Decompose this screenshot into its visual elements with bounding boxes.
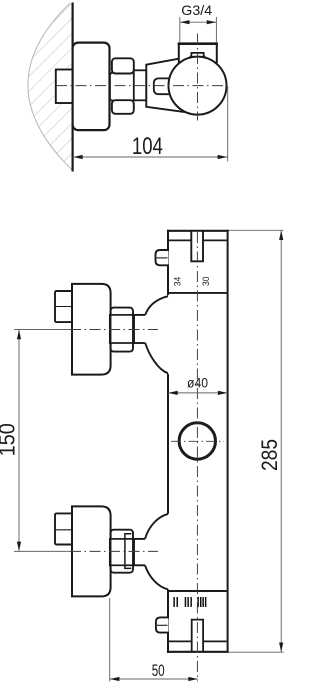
outlet tick marks — [173, 597, 206, 607]
lower knob neck — [133, 539, 146, 565]
ø40 arrow left — [168, 391, 178, 395]
bottom block band line — [169, 640, 227, 642]
104 extension line right — [227, 86, 229, 162]
150 arrow top — [17, 330, 21, 340]
104 dimension line — [73, 156, 228, 158]
ø40 dimension line — [168, 392, 228, 394]
ø40 arrow right — [218, 391, 228, 395]
G3/4 extension line right — [215, 17, 217, 43]
upper knob axis centerline — [14, 329, 158, 331]
stem cylinder — [134, 70, 147, 100]
ring horizontal centerline — [171, 440, 224, 442]
lower arm fill — [145, 515, 170, 590]
wall face line — [71, 3, 73, 172]
cone body — [146, 59, 197, 113]
svg-text:ø40: ø40 — [187, 375, 208, 391]
svg-text:34: 34 — [173, 277, 184, 287]
lower knob axis centerline — [14, 550, 158, 552]
vertical centerline (front view) — [196, 232, 198, 682]
horizontal centerline (top view) — [56, 85, 227, 87]
285 top extension line — [229, 229, 284, 231]
285 arrow top — [279, 231, 283, 241]
body left edge lower segment — [167, 589, 169, 653]
lower knob retaining clip — [125, 534, 131, 569]
lower knob body — [72, 506, 111, 596]
50 extension line left — [109, 598, 111, 682]
body bottom edge — [167, 651, 229, 653]
104 arrow left — [73, 155, 83, 159]
connector top thick edge — [178, 42, 218, 45]
lower knob hex outline — [111, 530, 134, 573]
lower arm top curve — [145, 514, 168, 539]
vertical centerline (top view) — [197, 34, 199, 121]
bottom outlet tube — [192, 620, 203, 651]
285 arrow bottom — [279, 643, 283, 653]
connector block (G3/4) — [179, 44, 217, 64]
svg-text:G3/4: G3/4 — [181, 2, 212, 18]
svg-text:30: 30 — [201, 277, 212, 287]
upper knob hex middle band — [110, 315, 134, 343]
bottom block top edge — [169, 590, 227, 592]
main round body (circle) — [169, 57, 227, 115]
upper knob body — [72, 284, 111, 375]
svg-text:285: 285 — [257, 439, 282, 471]
top cap line — [169, 239, 227, 241]
lower knob hex middle band — [110, 539, 134, 565]
wall break arc outline — [28, 3, 74, 171]
285 bottom extension line — [229, 651, 284, 653]
150 dimension line — [18, 330, 20, 552]
upper knob neck — [133, 315, 146, 343]
escutcheon plate — [73, 43, 110, 131]
285 dimension line — [280, 230, 282, 652]
G3/4 arrow left — [180, 20, 190, 24]
body fill — [168, 231, 228, 652]
top block bottom edge — [169, 292, 227, 294]
wall hatch region — [28, 3, 74, 171]
body right edge — [227, 230, 229, 653]
G3/4 dimension line — [180, 21, 217, 23]
G3/4 extension line left — [179, 17, 181, 43]
upper knob cap — [55, 291, 73, 322]
bottom side tab — [156, 617, 169, 632]
G3/4 arrow right — [207, 20, 217, 24]
body left edge upper segment — [167, 230, 169, 296]
svg-text:50: 50 — [152, 661, 165, 680]
body top edge — [167, 230, 229, 232]
top slot — [191, 231, 203, 261]
50 dimension line — [110, 678, 198, 680]
150 arrow bottom — [17, 542, 21, 552]
top side tab — [156, 250, 169, 265]
control ring (ø40 circle) — [179, 423, 215, 459]
104 arrow right — [218, 155, 228, 159]
supply pipe through wall — [56, 70, 73, 104]
lower arm bottom curve — [145, 565, 168, 589]
50 arrow right — [188, 677, 198, 681]
upper arm fill — [145, 295, 170, 375]
side nub — [154, 78, 169, 94]
hex nut bottom band — [112, 100, 134, 114]
body left edge middle segment — [167, 373, 169, 514]
svg-text:150: 150 — [0, 423, 20, 456]
top tab on circle — [189, 53, 205, 59]
50 arrow left — [110, 677, 120, 681]
hex nut top band — [112, 58, 134, 73]
svg-text:104: 104 — [132, 133, 163, 160]
upper arm top curve — [145, 296, 168, 315]
lower knob cap — [55, 513, 73, 544]
upper arm bottom curve — [145, 343, 168, 373]
upper knob hex outline — [111, 308, 134, 352]
hex nut middle band — [110, 73, 135, 101]
